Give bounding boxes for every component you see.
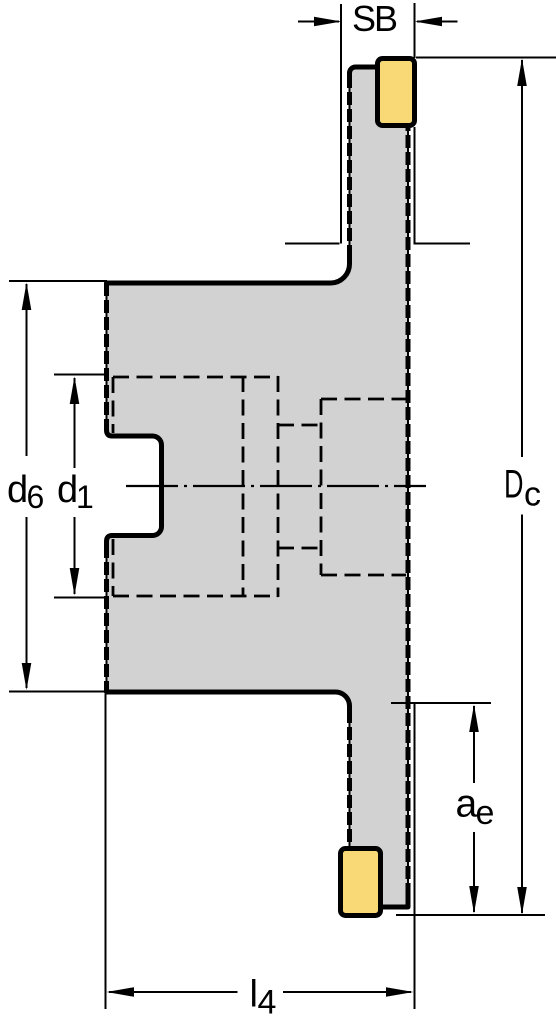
svg-text:a: a	[456, 783, 478, 826]
svg-text:4: 4	[258, 984, 277, 1022]
witness line right	[414, 243, 471, 245]
flange top edge with fillet	[107, 258, 350, 289]
dimension d6	[7, 283, 44, 691]
hidden bore outline (dashed)	[113, 376, 406, 597]
top rim top edge with corner	[350, 67, 409, 80]
svg-text:SB: SB	[352, 0, 397, 39]
svg-text:1: 1	[76, 479, 94, 515]
hidden counterbore edge	[320, 399, 323, 575]
top rim left edge thin line	[349, 75, 351, 264]
extension line SB right upper	[414, 3, 416, 58]
dimension ae	[456, 705, 495, 914]
svg-text:d: d	[7, 469, 28, 511]
dimension d1	[57, 377, 94, 596]
dimension l4	[107, 974, 414, 1022]
top rim left edge tooth dashes	[347, 75, 352, 264]
extension line SB right lower	[414, 127, 416, 244]
bore near-face hidden edge upper	[112, 377, 115, 433]
extension line Dc top	[416, 57, 556, 59]
hidden step bottom line	[278, 547, 321, 550]
bore d1 top hidden line	[113, 376, 278, 379]
extension line Dc/ae bottom	[396, 914, 545, 916]
bottom rim left edge thin line	[349, 706, 351, 907]
extension line l4 right	[414, 703, 416, 1009]
hidden step top line	[278, 424, 321, 427]
extension line d1 bottom	[54, 597, 108, 599]
svg-text:6: 6	[27, 479, 45, 515]
bottom rim left edge tooth dashes	[347, 710, 352, 907]
right face edge tooth dashes	[406, 67, 411, 896]
svg-text:e: e	[476, 794, 495, 832]
bore d1 bottom hidden line	[113, 595, 278, 598]
hidden bore step edge	[277, 376, 280, 597]
flange left face thin line	[106, 283, 108, 430]
cutter body cross-section (gray fill)	[107, 67, 409, 907]
bore near-face hidden edge lower	[112, 539, 115, 596]
flange left face tooth dashes	[104, 283, 109, 430]
extension line SB left	[340, 4, 342, 244]
insert (bottom, yellow)	[341, 849, 381, 916]
extension line ae top	[391, 702, 491, 704]
right face edge thin line	[407, 67, 409, 907]
svg-text:c: c	[524, 476, 541, 514]
dimension Dc	[504, 59, 541, 915]
svg-text:d: d	[57, 469, 78, 511]
witness line left	[285, 243, 340, 245]
hidden keyway edge	[242, 376, 245, 597]
extension line l4 left	[105, 694, 107, 1009]
dimension SB	[298, 0, 458, 39]
svg-text:D: D	[504, 463, 524, 507]
center line (axis)	[126, 485, 426, 487]
hidden counterbore top line	[321, 398, 406, 401]
hidden counterbore bottom line	[321, 574, 406, 577]
flange bottom edge with fillet	[107, 686, 350, 712]
flange left face with keyway notch	[107, 424, 162, 547]
extension line d6 bottom	[9, 691, 107, 693]
bottom rim bottom edge	[350, 893, 409, 907]
insert (top, yellow)	[378, 59, 415, 126]
extension line d1 top	[54, 374, 108, 376]
body outline: solid thick segments	[107, 67, 409, 907]
extension line d6 top	[9, 280, 107, 282]
